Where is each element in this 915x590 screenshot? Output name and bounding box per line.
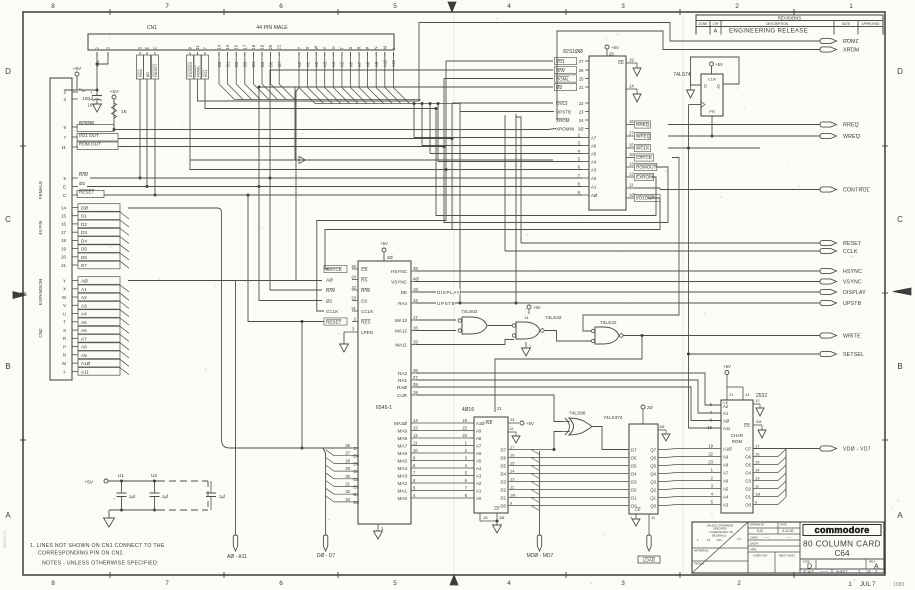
wire RAM D7 to XOR bottom input — [554, 432, 562, 450]
svg-text:LPEN: LPEN — [361, 330, 373, 335]
svg-text:S: S — [63, 328, 66, 333]
svg-text:S: S — [348, 47, 353, 50]
svg-text:CN2: CN2 — [38, 328, 43, 338]
svg-text:T: T — [63, 320, 66, 325]
svg-text:OF: OF — [866, 570, 871, 574]
svg-text:U: U — [63, 311, 66, 316]
svg-text:5: 5 — [393, 3, 397, 10]
svg-text:MA0: MA0 — [398, 496, 408, 501]
svg-text:A7: A7 — [723, 471, 729, 476]
svg-text:A5: A5 — [591, 152, 597, 157]
wire LS74 feedback — [691, 57, 740, 85]
svg-text:O2: O2 — [745, 487, 751, 492]
wire MA11 to OR2 — [416, 340, 514, 345]
svg-text:CHKD: CHKD — [750, 536, 758, 540]
svg-text:FEMALE: FEMALE — [38, 181, 43, 199]
bus D0-D7 vertical — [323, 448, 326, 535]
svg-text:M: M — [382, 46, 387, 50]
svg-text:74LS374: 74LS374 — [603, 415, 623, 421]
svg-text:SCALE: SCALE — [803, 570, 815, 574]
flag MD0-MD7 — [537, 535, 541, 551]
flag A0-A11 — [233, 535, 237, 551]
wire R/W to 82S100 and 6545 — [270, 70, 553, 178]
svg-text:O7: O7 — [745, 447, 751, 452]
svg-text:27: 27 — [345, 451, 350, 456]
svg-text:2Ø: 2Ø — [647, 405, 653, 410]
svg-text:ROML: ROML — [556, 77, 569, 82]
flag XROM — [820, 47, 837, 52]
svg-text:2: 2 — [737, 580, 741, 587]
wire WRITE to RAM WE — [495, 336, 642, 413]
svg-text:D6: D6 — [631, 456, 637, 461]
flag VSYNC — [820, 279, 837, 284]
svg-text:MA11: MA11 — [395, 343, 407, 348]
svg-text:31: 31 — [345, 482, 350, 487]
svg-text:14: 14 — [755, 468, 760, 473]
svg-text:15: 15 — [413, 340, 418, 345]
wire MA13 to NOR — [416, 319, 456, 321]
svg-text:1Ø: 1Ø — [659, 424, 664, 429]
svg-text:16: 16 — [629, 119, 634, 124]
svg-text:ROM: ROM — [732, 439, 743, 444]
wire MA12 to NOR — [416, 330, 456, 332]
svg-text:13: 13 — [755, 476, 760, 481]
svg-text:U1: U1 — [118, 473, 124, 479]
svg-text:22: 22 — [708, 452, 713, 457]
svg-text:CS: CS — [361, 267, 367, 272]
svg-text:14: 14 — [510, 469, 515, 474]
svg-text:AØ - A11: AØ - A11 — [227, 554, 247, 560]
svg-text:A: A — [897, 511, 903, 520]
wire SETSEL to ROM A11 — [689, 354, 722, 428]
svg-text:21: 21 — [497, 406, 502, 411]
svg-text:4Ø16: 4Ø16 — [462, 407, 474, 413]
svg-text:Y: Y — [297, 47, 302, 50]
svg-text:A4: A4 — [591, 160, 597, 165]
svg-text:RAØ: RAØ — [397, 385, 407, 390]
svg-text:~~⁠~: ~~⁠~ — [764, 536, 770, 540]
svg-text:B: B — [897, 362, 902, 371]
svg-text:2Ø: 2Ø — [387, 255, 393, 260]
svg-text:C: C — [63, 193, 66, 198]
svg-text:D1: D1 — [631, 496, 637, 501]
svg-text:8: 8 — [51, 580, 55, 587]
svg-text:WREQ: WREQ — [636, 134, 651, 139]
svg-text:A8: A8 — [476, 436, 482, 441]
svg-text:D7: D7 — [631, 448, 637, 453]
svg-text:DØ - D7: DØ - D7 — [317, 553, 336, 559]
svg-text:RREQ: RREQ — [636, 122, 650, 127]
wire 82S100 ROML input — [444, 78, 553, 80]
ground bypass caps — [104, 518, 115, 527]
svg-text:EXROM: EXROM — [636, 175, 653, 180]
wire RA2 to ROM — [416, 373, 721, 405]
svg-text:2: 2 — [735, 3, 739, 10]
wire CRTCE label feed — [325, 230, 452, 270]
wire 82S100 OVL2 input — [452, 102, 553, 104]
wire XROM to flag — [557, 31, 820, 120]
svg-text:D5: D5 — [81, 247, 87, 252]
wire WREQ — [668, 135, 820, 137]
flag UPSTB — [820, 300, 837, 305]
svg-text:commodore: commodore — [814, 524, 869, 535]
svg-text:11: 11 — [629, 183, 634, 188]
svg-text:RA4: RA4 — [398, 301, 407, 306]
flag D0-D7 — [323, 535, 327, 551]
flag HSYNC — [820, 268, 837, 273]
svg-text:20: 20 — [268, 44, 273, 49]
svg-text:A9: A9 — [81, 353, 87, 358]
svg-text:A9: A9 — [476, 429, 482, 434]
net CRTCE loop to 6545 — [190, 169, 582, 171]
char ROM U8 2532 — [721, 400, 753, 513]
svg-text:C: C — [5, 215, 11, 224]
svg-text:A2: A2 — [81, 295, 87, 300]
svg-text:A7: A7 — [476, 444, 482, 449]
svg-text:27: 27 — [579, 59, 584, 64]
svg-text:14: 14 — [217, 44, 222, 49]
svg-text:N: N — [374, 46, 379, 49]
svg-text:39: 39 — [413, 266, 418, 271]
svg-text:21: 21 — [61, 263, 66, 268]
svg-text:A: A — [5, 511, 11, 520]
svg-text:A7: A7 — [591, 136, 597, 141]
svg-text:XROM: XROM — [556, 118, 570, 123]
svg-text:AØ: AØ — [591, 193, 598, 198]
svg-text:18: 18 — [629, 152, 634, 157]
svg-text:14: 14 — [61, 205, 66, 210]
wire RREQ — [668, 124, 820, 126]
svg-text:CE: CE — [618, 60, 624, 65]
svg-text:C: C — [897, 215, 903, 224]
title block — [692, 522, 884, 573]
svg-text:WCLK: WCLK — [636, 146, 650, 151]
svg-text:D2: D2 — [81, 222, 87, 227]
svg-text:8: 8 — [51, 3, 55, 10]
svg-text:EXPANSION: EXPANSION — [38, 279, 43, 305]
svg-text:HSYNC: HSYNC — [843, 269, 862, 275]
wire PLA A5 feed — [430, 153, 582, 155]
svg-text:8000527-01: 8000527-01 — [3, 531, 7, 548]
svg-text:A6: A6 — [476, 451, 482, 456]
svg-text:A1: A1 — [591, 185, 597, 190]
bottom border arrow — [450, 575, 458, 585]
ground below C1 — [93, 104, 102, 112]
svg-text:A4: A4 — [81, 312, 87, 317]
svg-text:15: 15 — [61, 214, 66, 219]
svg-text:O2: O2 — [361, 299, 368, 304]
wire CN1 ROML — [198, 79, 420, 101]
CN2 D and A bus ladders — [78, 204, 120, 212]
svg-text:2Ø: 2Ø — [578, 127, 584, 132]
svg-text:ENGINEERING RELEASE: ENGINEERING RELEASE — [729, 28, 808, 35]
net HSYNC — [415, 270, 820, 272]
svg-text:26: 26 — [345, 443, 350, 448]
svg-text:XROMIN: XROMIN — [556, 127, 574, 132]
svg-text:Q6: Q6 — [650, 456, 656, 461]
svg-text:VSYNC: VSYNC — [843, 280, 862, 286]
svg-text:29: 29 — [345, 466, 350, 471]
svg-text:M: M — [62, 361, 66, 366]
net RESET out — [521, 242, 820, 244]
net ROM-OUT — [118, 147, 668, 223]
svg-text:A1: A1 — [81, 287, 87, 292]
svg-text:JUL 7: JUL 7 — [860, 582, 876, 588]
svg-text:12: 12 — [413, 433, 418, 438]
svg-text:A11: A11 — [81, 369, 89, 374]
svg-text:24: 24 — [351, 275, 356, 280]
svg-text:D5: D5 — [354, 461, 360, 466]
svg-text:Q4: Q4 — [650, 472, 656, 477]
svg-text:+5V: +5V — [723, 364, 731, 369]
wire CUR to XOR — [416, 395, 554, 397]
svg-text:21: 21 — [729, 392, 734, 397]
svg-text:RES: RES — [361, 320, 370, 325]
svg-text:.XXX: .XXX — [716, 538, 722, 542]
svg-text:V: V — [63, 303, 66, 308]
svg-text:D2: D2 — [354, 485, 360, 490]
svg-text:33: 33 — [345, 497, 350, 502]
flag LOAD — [647, 535, 651, 551]
svg-text:1Ø: 1Ø — [510, 493, 515, 498]
svg-text:MA1Ø: MA1Ø — [394, 421, 407, 426]
svg-text:.X: .X — [696, 538, 699, 542]
svg-text:CUR: CUR — [397, 393, 408, 398]
svg-text:D1: D1 — [501, 496, 507, 501]
svg-text:VSYNC: VSYNC — [391, 280, 408, 285]
wire CN1 I/O1 — [205, 79, 436, 109]
svg-text:A5: A5 — [81, 320, 87, 325]
bus CN1 D0-D7 fan — [218, 52, 220, 84]
svg-text:EXROM: EXROM — [188, 62, 193, 77]
svg-text:13: 13 — [413, 426, 418, 431]
svg-text:——: —— — [820, 568, 828, 573]
svg-text:P: P — [365, 47, 370, 50]
svg-text:+5V: +5V — [73, 66, 82, 72]
svg-text:T: T — [339, 47, 344, 50]
border zone tick marks — [109, 9, 111, 15]
wire bus drop D — [419, 100, 421, 102]
svg-text:R/W: R/W — [79, 172, 89, 177]
wire A0 to 6545 RS — [296, 88, 299, 281]
svg-text:A: A — [714, 29, 718, 35]
wire WCLK — [668, 147, 760, 149]
svg-text:R: R — [357, 46, 362, 49]
svg-text:1K: 1K — [121, 109, 128, 115]
svg-text:MA9: MA9 — [398, 429, 408, 434]
svg-text:11: 11 — [61, 145, 66, 150]
svg-text:16: 16 — [755, 452, 760, 457]
flag CCLK — [820, 248, 837, 253]
svg-text:XROM: XROM — [843, 48, 859, 54]
svg-text:DØ: DØ — [81, 206, 88, 211]
svg-text:DATE: DATE — [842, 22, 850, 26]
svg-text:Q7: Q7 — [650, 448, 656, 453]
svg-text:A11: A11 — [723, 426, 731, 431]
svg-text:MA1: MA1 — [398, 489, 408, 494]
svg-text:RREQ: RREQ — [843, 123, 859, 129]
+5V supply symbol — [75, 72, 79, 76]
svg-text:C: C — [153, 46, 158, 49]
svg-text:A4: A4 — [723, 495, 729, 500]
svg-text:LTR: LTR — [713, 22, 719, 26]
svg-text:16: 16 — [234, 44, 239, 49]
svg-text:1Ø: 1Ø — [755, 492, 760, 497]
svg-text:ROMOUT: ROMOUT — [636, 165, 657, 170]
svg-text:D1: D1 — [354, 492, 360, 497]
revisions table — [696, 15, 883, 35]
gate A output wire — [544, 331, 591, 342]
svg-text:18: 18 — [707, 425, 712, 430]
svg-text:17: 17 — [629, 131, 634, 136]
svg-text:DISPLAY: DISPLAY — [437, 290, 460, 295]
svg-text:A0: A0 — [476, 496, 482, 501]
svg-text:OVL2: OVL2 — [556, 101, 568, 106]
svg-text:WRITE: WRITE — [843, 334, 861, 340]
svg-text:21: 21 — [277, 44, 282, 49]
svg-text:18: 18 — [61, 238, 66, 243]
svg-text:44 PIN MALE: 44 PIN MALE — [256, 25, 288, 31]
svg-text:A8: A8 — [723, 463, 729, 468]
svg-text:R: R — [63, 336, 66, 341]
svg-text:21: 21 — [579, 85, 584, 90]
svg-text:12: 12 — [629, 172, 634, 177]
svg-text:W: W — [314, 46, 319, 50]
svg-text:MA5: MA5 — [398, 459, 408, 464]
svg-text:13: 13 — [629, 162, 634, 167]
svg-text:Q3: Q3 — [650, 480, 656, 485]
svg-text:12: 12 — [509, 426, 514, 431]
svg-text:CN1: CN1 — [147, 25, 157, 31]
svg-text:+: + — [90, 90, 93, 95]
wire ROML to flag — [419, 23, 820, 102]
flag VDØ - VD7 — [820, 446, 837, 451]
svg-text:WE: WE — [486, 420, 493, 425]
wire D bus to 6545 — [128, 208, 352, 448]
svg-text:+5V: +5V — [380, 241, 388, 246]
svg-text:AØ: AØ — [81, 279, 88, 284]
svg-text:D5: D5 — [501, 464, 507, 469]
svg-text:D6: D6 — [354, 454, 360, 459]
svg-text:D4: D4 — [81, 238, 87, 243]
svg-text:DRAWN BY: DRAWN BY — [750, 523, 765, 527]
flag WREQ — [820, 133, 837, 138]
scan crease line — [453, 13, 455, 574]
svg-text:RA2: RA2 — [398, 371, 407, 376]
svg-text:1983: 1983 — [893, 582, 904, 588]
capacitor C1 100uF — [96, 90, 98, 96]
connector CN1 44-pin male — [88, 34, 394, 50]
svg-text:.XX: .XX — [706, 538, 710, 542]
svg-text:I/O1OUT: I/O1OUT — [636, 196, 655, 201]
svg-text:11: 11 — [195, 44, 200, 49]
svg-text:74LS02: 74LS02 — [461, 309, 478, 315]
XOR output wire — [592, 427, 629, 450]
svg-text:NOTES - UNLESS OTHERWISE SPE: NOTES - UNLESS OTHERWISE SPECIFIED: — [42, 561, 159, 567]
net DISPLAY — [415, 291, 820, 293]
svg-text:A2: A2 — [476, 481, 482, 486]
resistor R1 1K — [112, 103, 117, 118]
svg-text:CRTCE: CRTCE — [636, 155, 652, 160]
svg-text:24: 24 — [510, 417, 515, 422]
svg-text:+5V: +5V — [533, 305, 541, 310]
svg-text:A3: A3 — [81, 303, 87, 308]
svg-text:6-22-82: 6-22-82 — [783, 529, 794, 533]
wire CN1 RESET down — [154, 79, 156, 195]
svg-text:100µf: 100µf — [82, 96, 93, 101]
svg-text:16: 16 — [413, 326, 418, 331]
svg-text:Q0: Q0 — [650, 504, 656, 509]
wire LS74 clock — [689, 104, 702, 106]
svg-text:DATE: DATE — [780, 523, 787, 527]
PLA output pins — [626, 62, 634, 64]
svg-text:23: 23 — [462, 433, 467, 438]
svg-text:28: 28 — [345, 458, 350, 463]
svg-text:+5V: +5V — [715, 62, 723, 67]
svg-text:D7: D7 — [354, 446, 360, 451]
svg-text:X: X — [305, 47, 310, 50]
nc triangle pin14 — [634, 88, 637, 90]
svg-text:D6: D6 — [501, 456, 507, 461]
svg-text:A6: A6 — [723, 479, 729, 484]
svg-text:18: 18 — [483, 515, 488, 520]
net SETSEL — [689, 353, 821, 355]
svg-text:LOAD: LOAD — [643, 558, 656, 563]
svg-text:D0: D0 — [354, 500, 360, 505]
svg-text:6545-1: 6545-1 — [376, 405, 392, 411]
svg-text:30: 30 — [345, 474, 350, 479]
svg-text:SJC: SJC — [757, 529, 764, 533]
svg-text:15: 15 — [510, 461, 515, 466]
svg-text:16: 16 — [510, 453, 515, 458]
svg-text:D4: D4 — [501, 472, 507, 477]
latch U7 74LS374 — [629, 424, 658, 514]
net R/W — [90, 177, 582, 179]
svg-text:13: 13 — [510, 477, 515, 482]
svg-text:1: 1 — [849, 3, 853, 10]
flag DISPLAY — [820, 289, 837, 294]
svg-text:ROML: ROML — [195, 65, 200, 77]
svg-text:RA1: RA1 — [398, 378, 407, 383]
svg-text:S: S — [138, 47, 143, 50]
svg-text:D6: D6 — [81, 255, 87, 260]
svg-text:17: 17 — [413, 315, 418, 320]
flag SETSEL — [820, 351, 837, 356]
CRTC U5 6545-1 — [358, 261, 411, 524]
svg-text:CE: CE — [635, 507, 641, 512]
net ROMIN — [114, 129, 548, 131]
svg-text:19: 19 — [629, 58, 634, 63]
svg-text:19: 19 — [260, 44, 265, 49]
wire PLA A4 feed — [438, 161, 582, 163]
svg-text:18: 18 — [413, 287, 418, 292]
svg-text:21: 21 — [351, 306, 356, 311]
svg-text:CHAR: CHAR — [731, 433, 743, 438]
svg-text:MATERIAL: MATERIAL — [694, 549, 709, 553]
svg-text:15: 15 — [629, 143, 634, 148]
svg-text:UPSTB: UPSTB — [437, 301, 455, 306]
svg-text:24: 24 — [579, 118, 584, 123]
svg-text:Q5: Q5 — [650, 464, 656, 469]
svg-text:WREQ: WREQ — [843, 134, 860, 140]
svg-text:19: 19 — [61, 246, 66, 251]
wire LPEN ground — [343, 332, 345, 344]
svg-text:Ø2: Ø2 — [145, 71, 150, 77]
svg-text:D2: D2 — [631, 488, 637, 493]
svg-text:A9: A9 — [723, 455, 729, 460]
svg-text:NEXT ASSY: NEXT ASSY — [779, 554, 796, 558]
svg-text:11: 11 — [413, 441, 418, 446]
